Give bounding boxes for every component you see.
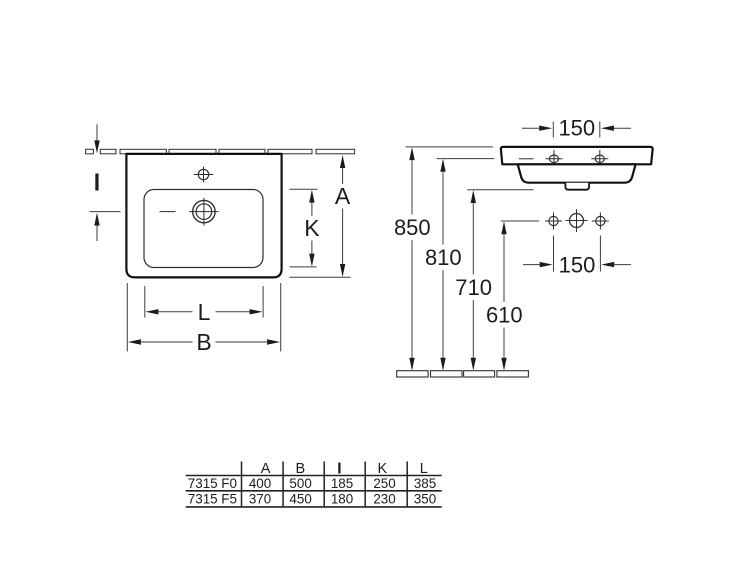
svg-text:185: 185 (331, 476, 353, 491)
svg-text:500: 500 (289, 476, 311, 491)
svg-text:250: 250 (373, 476, 395, 491)
svg-text:L: L (420, 461, 428, 477)
svg-text:B: B (295, 461, 305, 477)
svg-text:150: 150 (558, 116, 595, 141)
svg-text:400: 400 (249, 476, 271, 491)
svg-text:7315 F0: 7315 F0 (188, 476, 237, 491)
svg-text:710: 710 (455, 275, 492, 300)
svg-text:A: A (335, 183, 351, 209)
svg-text:385: 385 (414, 476, 436, 491)
svg-text:350: 350 (414, 491, 436, 506)
svg-text:180: 180 (331, 491, 353, 506)
svg-text:K: K (377, 461, 387, 477)
svg-text:B: B (196, 329, 211, 355)
svg-text:150: 150 (559, 253, 596, 278)
svg-text:850: 850 (394, 215, 431, 240)
svg-text:K: K (304, 215, 320, 241)
svg-text:450: 450 (289, 491, 311, 506)
svg-text:370: 370 (249, 491, 271, 506)
svg-text:L: L (198, 299, 211, 325)
svg-text:A: A (261, 461, 271, 477)
svg-text:I: I (94, 169, 100, 195)
svg-text:230: 230 (373, 491, 395, 506)
svg-text:I: I (337, 461, 341, 477)
svg-text:810: 810 (425, 245, 462, 270)
svg-text:610: 610 (486, 302, 523, 327)
svg-text:7315 F5: 7315 F5 (188, 491, 237, 506)
